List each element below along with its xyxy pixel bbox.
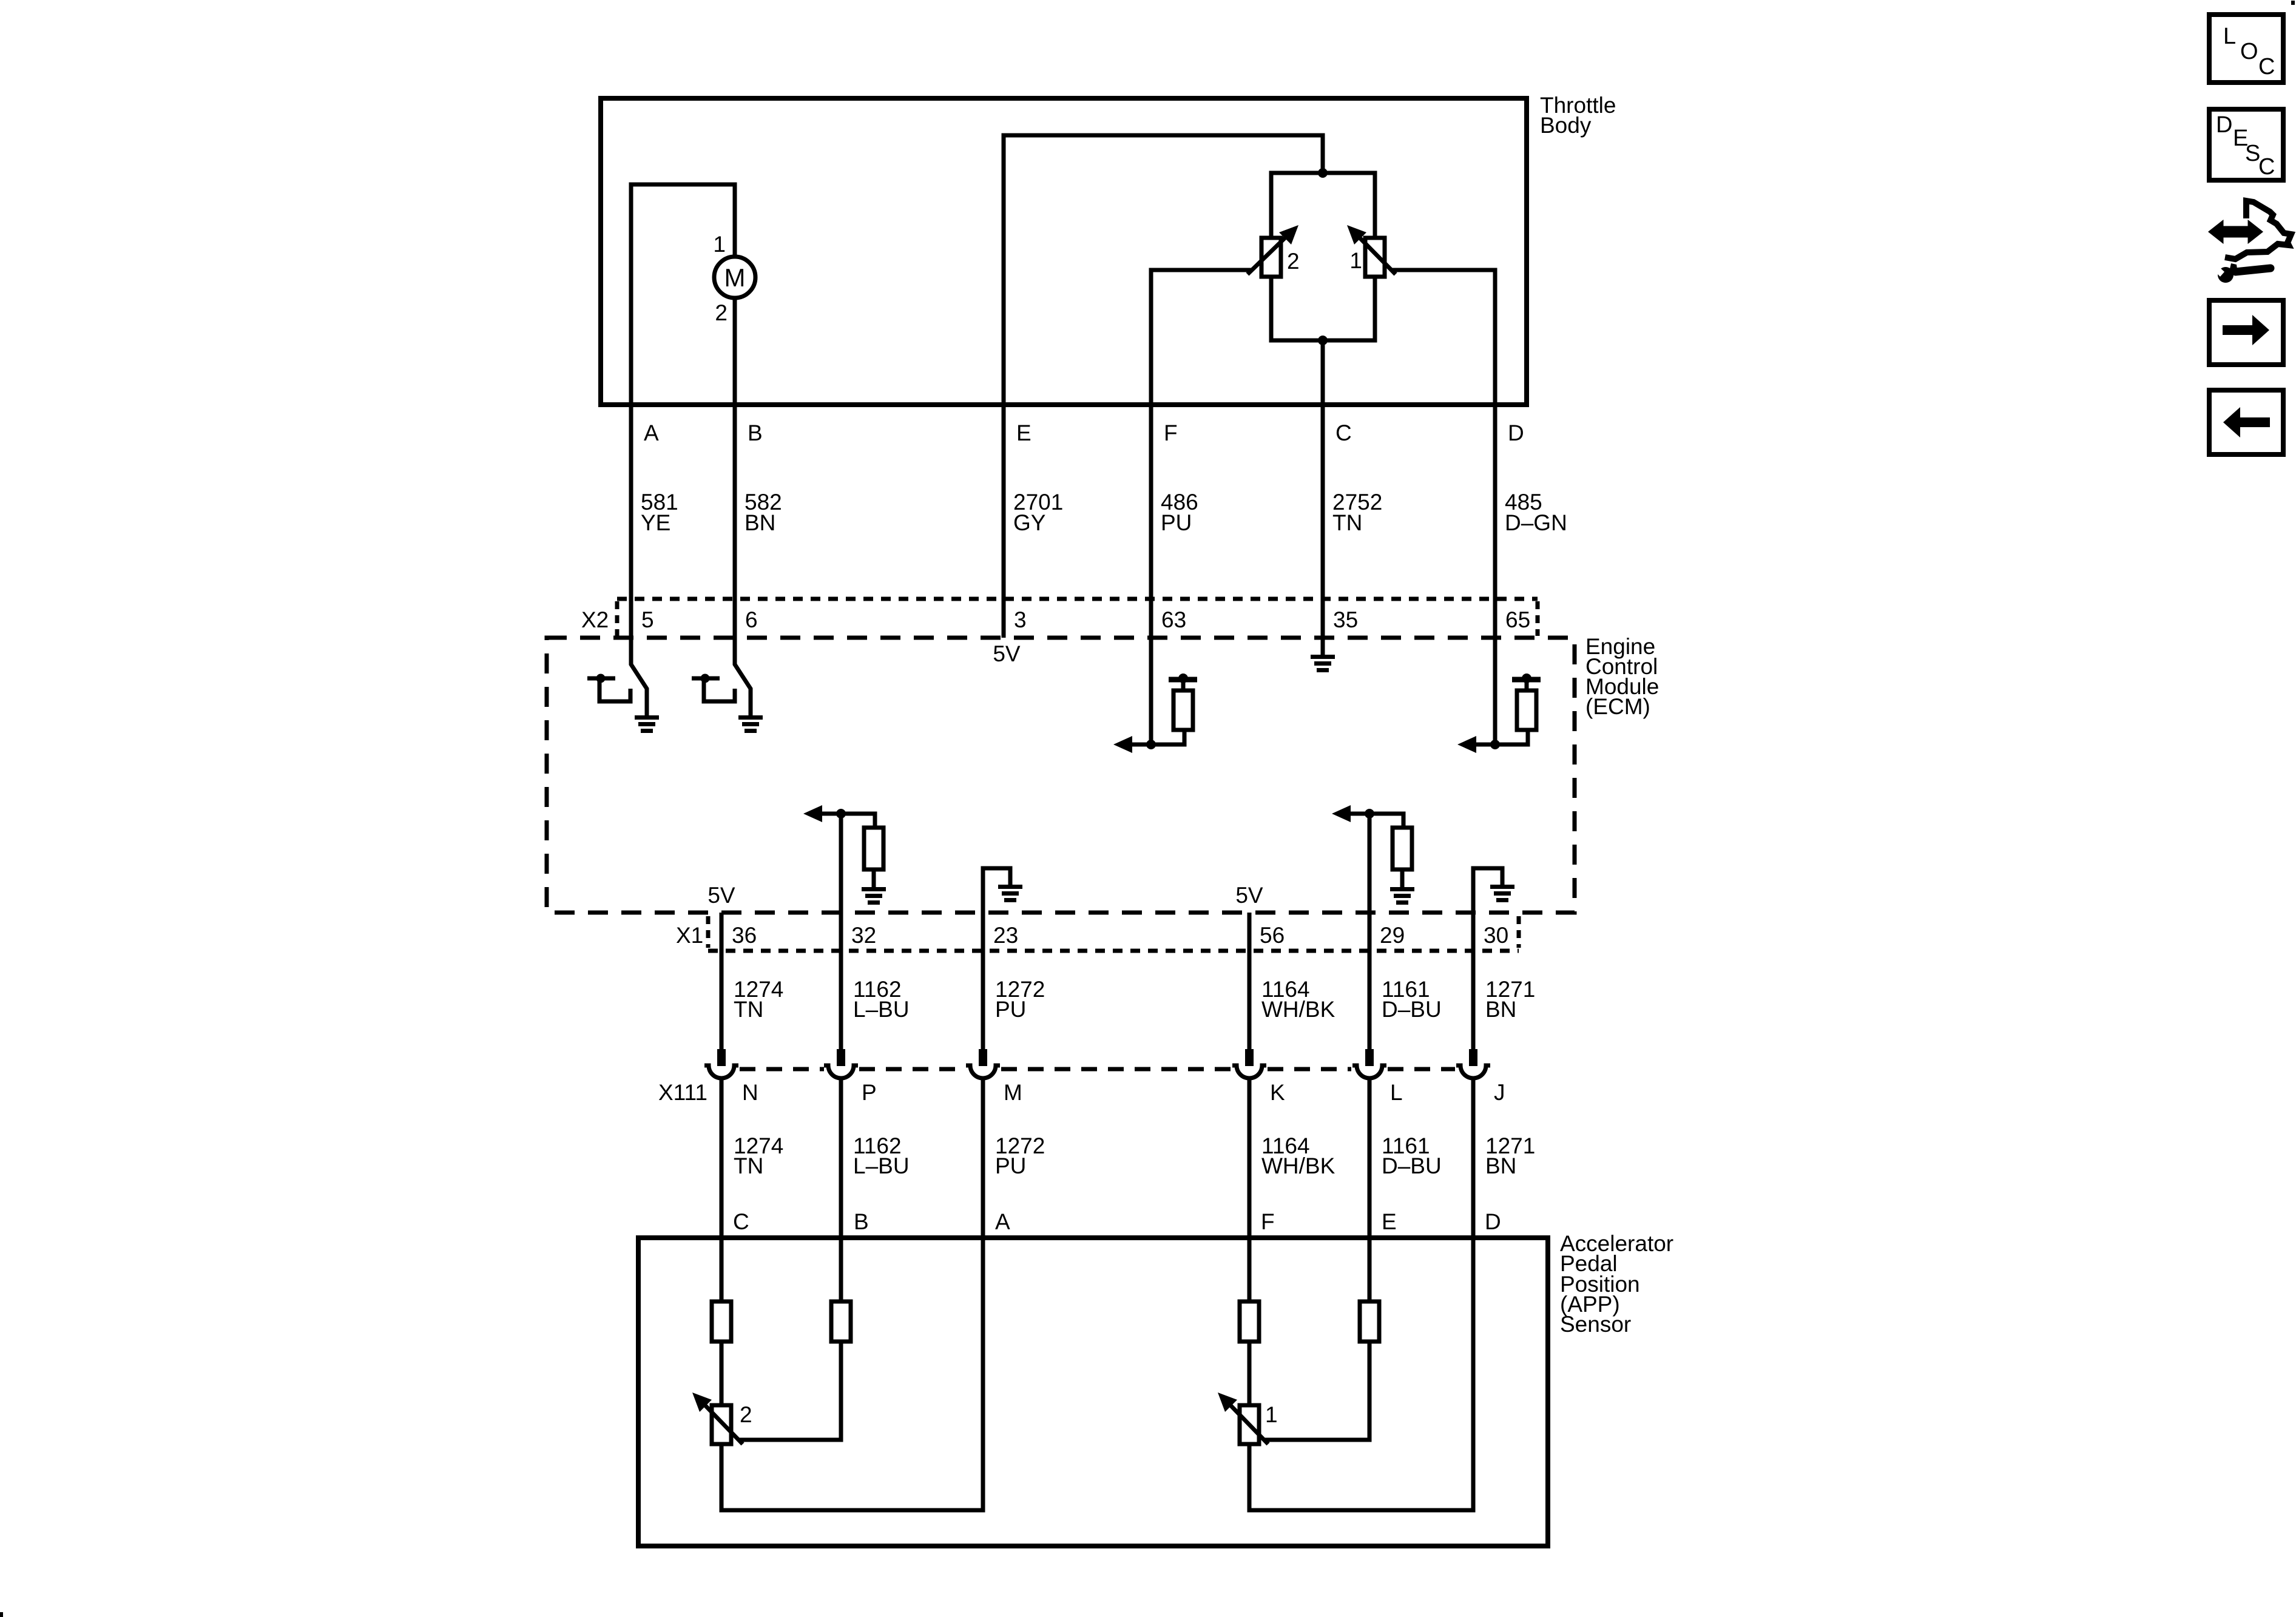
motor M <box>714 257 755 298</box>
resistor (pin 29 pull-down) <box>1393 828 1412 869</box>
wire: E down to X2 pin 3 <box>1002 407 1006 638</box>
resistor (pin 65 pull-up) <box>1517 690 1536 730</box>
pin 30 internal ground hook <box>1473 868 1502 885</box>
pin 32 internal circuit: arrow, junction, resistor, ground <box>819 814 875 887</box>
svg-text:E: E <box>1016 420 1032 445</box>
page corner speck bottom left <box>0 1612 3 1617</box>
svg-text:L: L <box>2223 24 2236 49</box>
svg-text:2: 2 <box>1287 249 1300 274</box>
svg-text:WH/BK: WH/BK <box>1261 997 1335 1022</box>
wire: APP pot 1 bottom to pin D <box>1249 1238 1473 1510</box>
resistor (APP pin E) <box>1360 1301 1379 1342</box>
wire: pin B resistor down and left to pot 2 wiper <box>738 1342 841 1440</box>
svg-text:PU: PU <box>995 1153 1026 1178</box>
svg-text:35: 35 <box>1333 607 1358 632</box>
wire: D down to X2 pin 65 <box>1493 407 1497 744</box>
svg-text:C: C <box>733 1209 749 1234</box>
wire: pin 32 down to X111 <box>839 814 843 1049</box>
svg-text:M: M <box>1004 1080 1022 1105</box>
TPS potentiometer 1 resistor <box>1365 238 1385 277</box>
svg-text:5V: 5V <box>707 883 735 908</box>
wire: pin 56 down to X111 <box>1248 913 1252 1049</box>
svg-text:D–GN: D–GN <box>1505 510 1567 535</box>
svg-text:65: 65 <box>1505 607 1530 632</box>
wire: C down to X2 pin 35 <box>1321 407 1325 655</box>
svg-text:BN: BN <box>1485 1153 1516 1178</box>
ground for pin 6 circuit <box>738 715 763 733</box>
APP sensor box <box>638 1238 1548 1546</box>
svg-text:YE: YE <box>641 510 670 535</box>
node: TPS bottom junction <box>1318 336 1328 345</box>
X111 connector terminal (pin K) <box>1232 1049 1266 1238</box>
pin 63 internal circuit: arrow, junction, resistor, supply bar <box>1129 680 1197 744</box>
APP potentiometer 2 resistor <box>712 1405 731 1444</box>
Throttle Body box <box>601 98 1527 405</box>
resistor (pin 63 pull-up) <box>1173 690 1193 730</box>
svg-text:3: 3 <box>1014 607 1027 632</box>
svg-text:X2: X2 <box>581 607 609 632</box>
LOC icon box <box>2209 15 2283 83</box>
svg-text:PU: PU <box>995 997 1026 1022</box>
wire: pin 30 down to X111 <box>1471 868 1476 1049</box>
wire A loop: connector A up and across to motor <box>631 184 735 407</box>
X111 connector terminal (pin M) <box>966 1049 1000 1238</box>
svg-text:29: 29 <box>1380 923 1405 948</box>
node: TPS top junction <box>1318 168 1328 178</box>
ground for pin 32 circuit <box>862 887 886 905</box>
TPS sensor body rectangle <box>1271 173 1375 340</box>
wire: pin 23 down to X111 <box>981 868 985 1049</box>
ground for pin 23 circuit <box>998 885 1022 902</box>
wire: A down through X2 pin 5 <box>631 407 647 715</box>
svg-text:D: D <box>1485 1209 1501 1234</box>
svg-text:Body: Body <box>1540 113 1592 138</box>
svg-text:F: F <box>1164 420 1178 445</box>
svg-text:X111: X111 <box>658 1080 707 1105</box>
svg-text:PU: PU <box>1161 510 1192 535</box>
svg-text:M: M <box>724 263 746 292</box>
back arrow icon box <box>2209 390 2283 454</box>
svg-text:A: A <box>644 420 659 445</box>
svg-text:32: 32 <box>851 923 876 948</box>
X111 connector terminal (pin J) <box>1456 1049 1490 1238</box>
svg-text:2: 2 <box>740 1402 752 1427</box>
wire: B down through X2 pin 6 <box>735 407 751 715</box>
ground for pin 29 circuit <box>1390 887 1414 905</box>
pin 23 internal ground hook <box>983 868 1010 885</box>
svg-text:D–BU: D–BU <box>1382 1153 1442 1178</box>
pin 65 internal circuit: arrow, junction, resistor, supply bar <box>1473 680 1541 744</box>
X111 connector terminal (pin L) <box>1352 1049 1386 1238</box>
resistor (APP pin B) <box>831 1301 851 1342</box>
pin 29 internal circuit: arrow, junction, resistor, ground <box>1347 814 1403 887</box>
svg-text:O: O <box>2240 39 2258 64</box>
svg-text:X1: X1 <box>676 923 703 948</box>
APP potentiometer 1 resistor <box>1240 1405 1259 1444</box>
wire: resistor down to APP pot 1 <box>1248 1342 1252 1405</box>
svg-text:BN: BN <box>1485 997 1516 1022</box>
svg-text:A: A <box>995 1209 1010 1234</box>
svg-text:5V: 5V <box>993 641 1021 666</box>
svg-text:BN: BN <box>745 510 775 535</box>
APP pot 1 wiper arrow <box>1229 1403 1268 1444</box>
svg-text:B: B <box>854 1209 869 1234</box>
wire: pin E resistor down and left to pot 1 wiper <box>1264 1342 1369 1440</box>
svg-text:J: J <box>1494 1080 1505 1105</box>
svg-text:L–BU: L–BU <box>853 1153 910 1178</box>
wire: connector E up, across, down to TPS top node <box>1004 135 1323 407</box>
svg-text:1: 1 <box>1349 248 1362 273</box>
svg-text:L: L <box>1390 1080 1403 1105</box>
wire: pin C to resistor <box>720 1238 724 1301</box>
forward arrow icon box <box>2209 300 2283 365</box>
svg-text:WH/BK: WH/BK <box>1261 1153 1335 1178</box>
svg-text:5: 5 <box>641 607 654 632</box>
svg-text:TN: TN <box>734 1153 763 1178</box>
ground for pin 35 circuit <box>1311 655 1335 672</box>
svg-text:C: C <box>1335 420 1352 445</box>
TPS potentiometer 1 wiper arrow <box>1358 236 1396 274</box>
X1 connector right bracket <box>1517 916 1521 948</box>
splice for pin 5 circuit <box>587 674 630 702</box>
wire: TPS bottom node down to connector C <box>1321 340 1325 407</box>
resistor (APP pin C) <box>712 1301 731 1342</box>
X2 connector left bracket <box>615 601 620 636</box>
svg-text:N: N <box>742 1080 758 1105</box>
diagnostic (engine with wrench) icon <box>2210 201 2291 283</box>
svg-text:D–BU: D–BU <box>1382 997 1442 1022</box>
svg-text:6: 6 <box>745 607 758 632</box>
wire: connector F up and right to TPS pot 2 wiper <box>1151 270 1252 407</box>
svg-text:30: 30 <box>1484 923 1508 948</box>
ground for pin 5 circuit <box>635 715 659 733</box>
resistor (pin 32 pull-down) <box>864 828 883 869</box>
svg-text:E: E <box>1382 1209 1397 1234</box>
wire: pin 29 down to X111 <box>1368 814 1372 1049</box>
wire: F down to X2 pin 63 <box>1149 407 1153 744</box>
wire: pin F to resistor <box>1248 1238 1252 1301</box>
svg-text:5V: 5V <box>1235 883 1263 908</box>
X111 connector terminals (pin N) <box>704 1049 738 1238</box>
svg-text:C: C <box>2258 54 2275 79</box>
wire: TPS pot 1 wiper right and down to connector D <box>1391 270 1495 407</box>
svg-text:Sensor: Sensor <box>1560 1312 1631 1337</box>
TPS potentiometer 2 wiper arrow <box>1248 235 1288 274</box>
svg-text:F: F <box>1261 1209 1275 1234</box>
svg-text:1: 1 <box>1265 1402 1278 1427</box>
svg-text:C: C <box>2258 154 2275 180</box>
svg-text:L–BU: L–BU <box>853 997 910 1022</box>
svg-text:P: P <box>862 1080 877 1105</box>
svg-text:36: 36 <box>732 923 757 948</box>
svg-text:2: 2 <box>715 300 728 325</box>
splice for pin 6 circuit <box>692 674 735 702</box>
wire: resistor down to APP pot 2 <box>720 1342 724 1405</box>
wire: pin E to resistor <box>1368 1238 1372 1301</box>
wire: APP pot 2 bottom to pin A <box>721 1238 983 1510</box>
wire: pin B to resistor <box>839 1238 843 1301</box>
wire: motor pin 2 down to connector B <box>733 298 737 407</box>
page corner speck top right <box>2291 1 2295 5</box>
X1 connector row dotted line <box>708 949 1519 953</box>
svg-text:23: 23 <box>993 923 1018 948</box>
svg-text:K: K <box>1270 1080 1285 1105</box>
X111 inline connector row dashes <box>740 1067 1455 1072</box>
svg-text:D: D <box>2216 112 2232 138</box>
svg-text:D: D <box>1508 420 1524 445</box>
APP pot 2 wiper arrow <box>703 1403 743 1444</box>
svg-text:63: 63 <box>1161 607 1186 632</box>
svg-text:56: 56 <box>1260 923 1285 948</box>
X2 connector right bracket <box>1536 601 1540 636</box>
X1 connector left bracket <box>706 916 711 948</box>
svg-text:TN: TN <box>1332 510 1362 535</box>
wire: pin 36 down to X111 <box>720 913 724 1049</box>
resistor (APP pin F) <box>1240 1301 1259 1342</box>
ECM dashed box <box>547 638 1575 913</box>
ground for pin 30 circuit <box>1490 885 1514 902</box>
DESC icon box <box>2209 109 2283 180</box>
svg-text:TN: TN <box>734 997 763 1022</box>
svg-text:GY: GY <box>1013 510 1045 535</box>
X111 connector terminal (pin P) <box>824 1049 858 1238</box>
TPS potentiometer 2 resistor <box>1261 238 1281 277</box>
svg-text:(ECM): (ECM) <box>1585 694 1650 719</box>
svg-text:B: B <box>748 420 763 445</box>
X2 connector row dotted line <box>617 597 1538 601</box>
svg-text:1: 1 <box>713 232 726 257</box>
